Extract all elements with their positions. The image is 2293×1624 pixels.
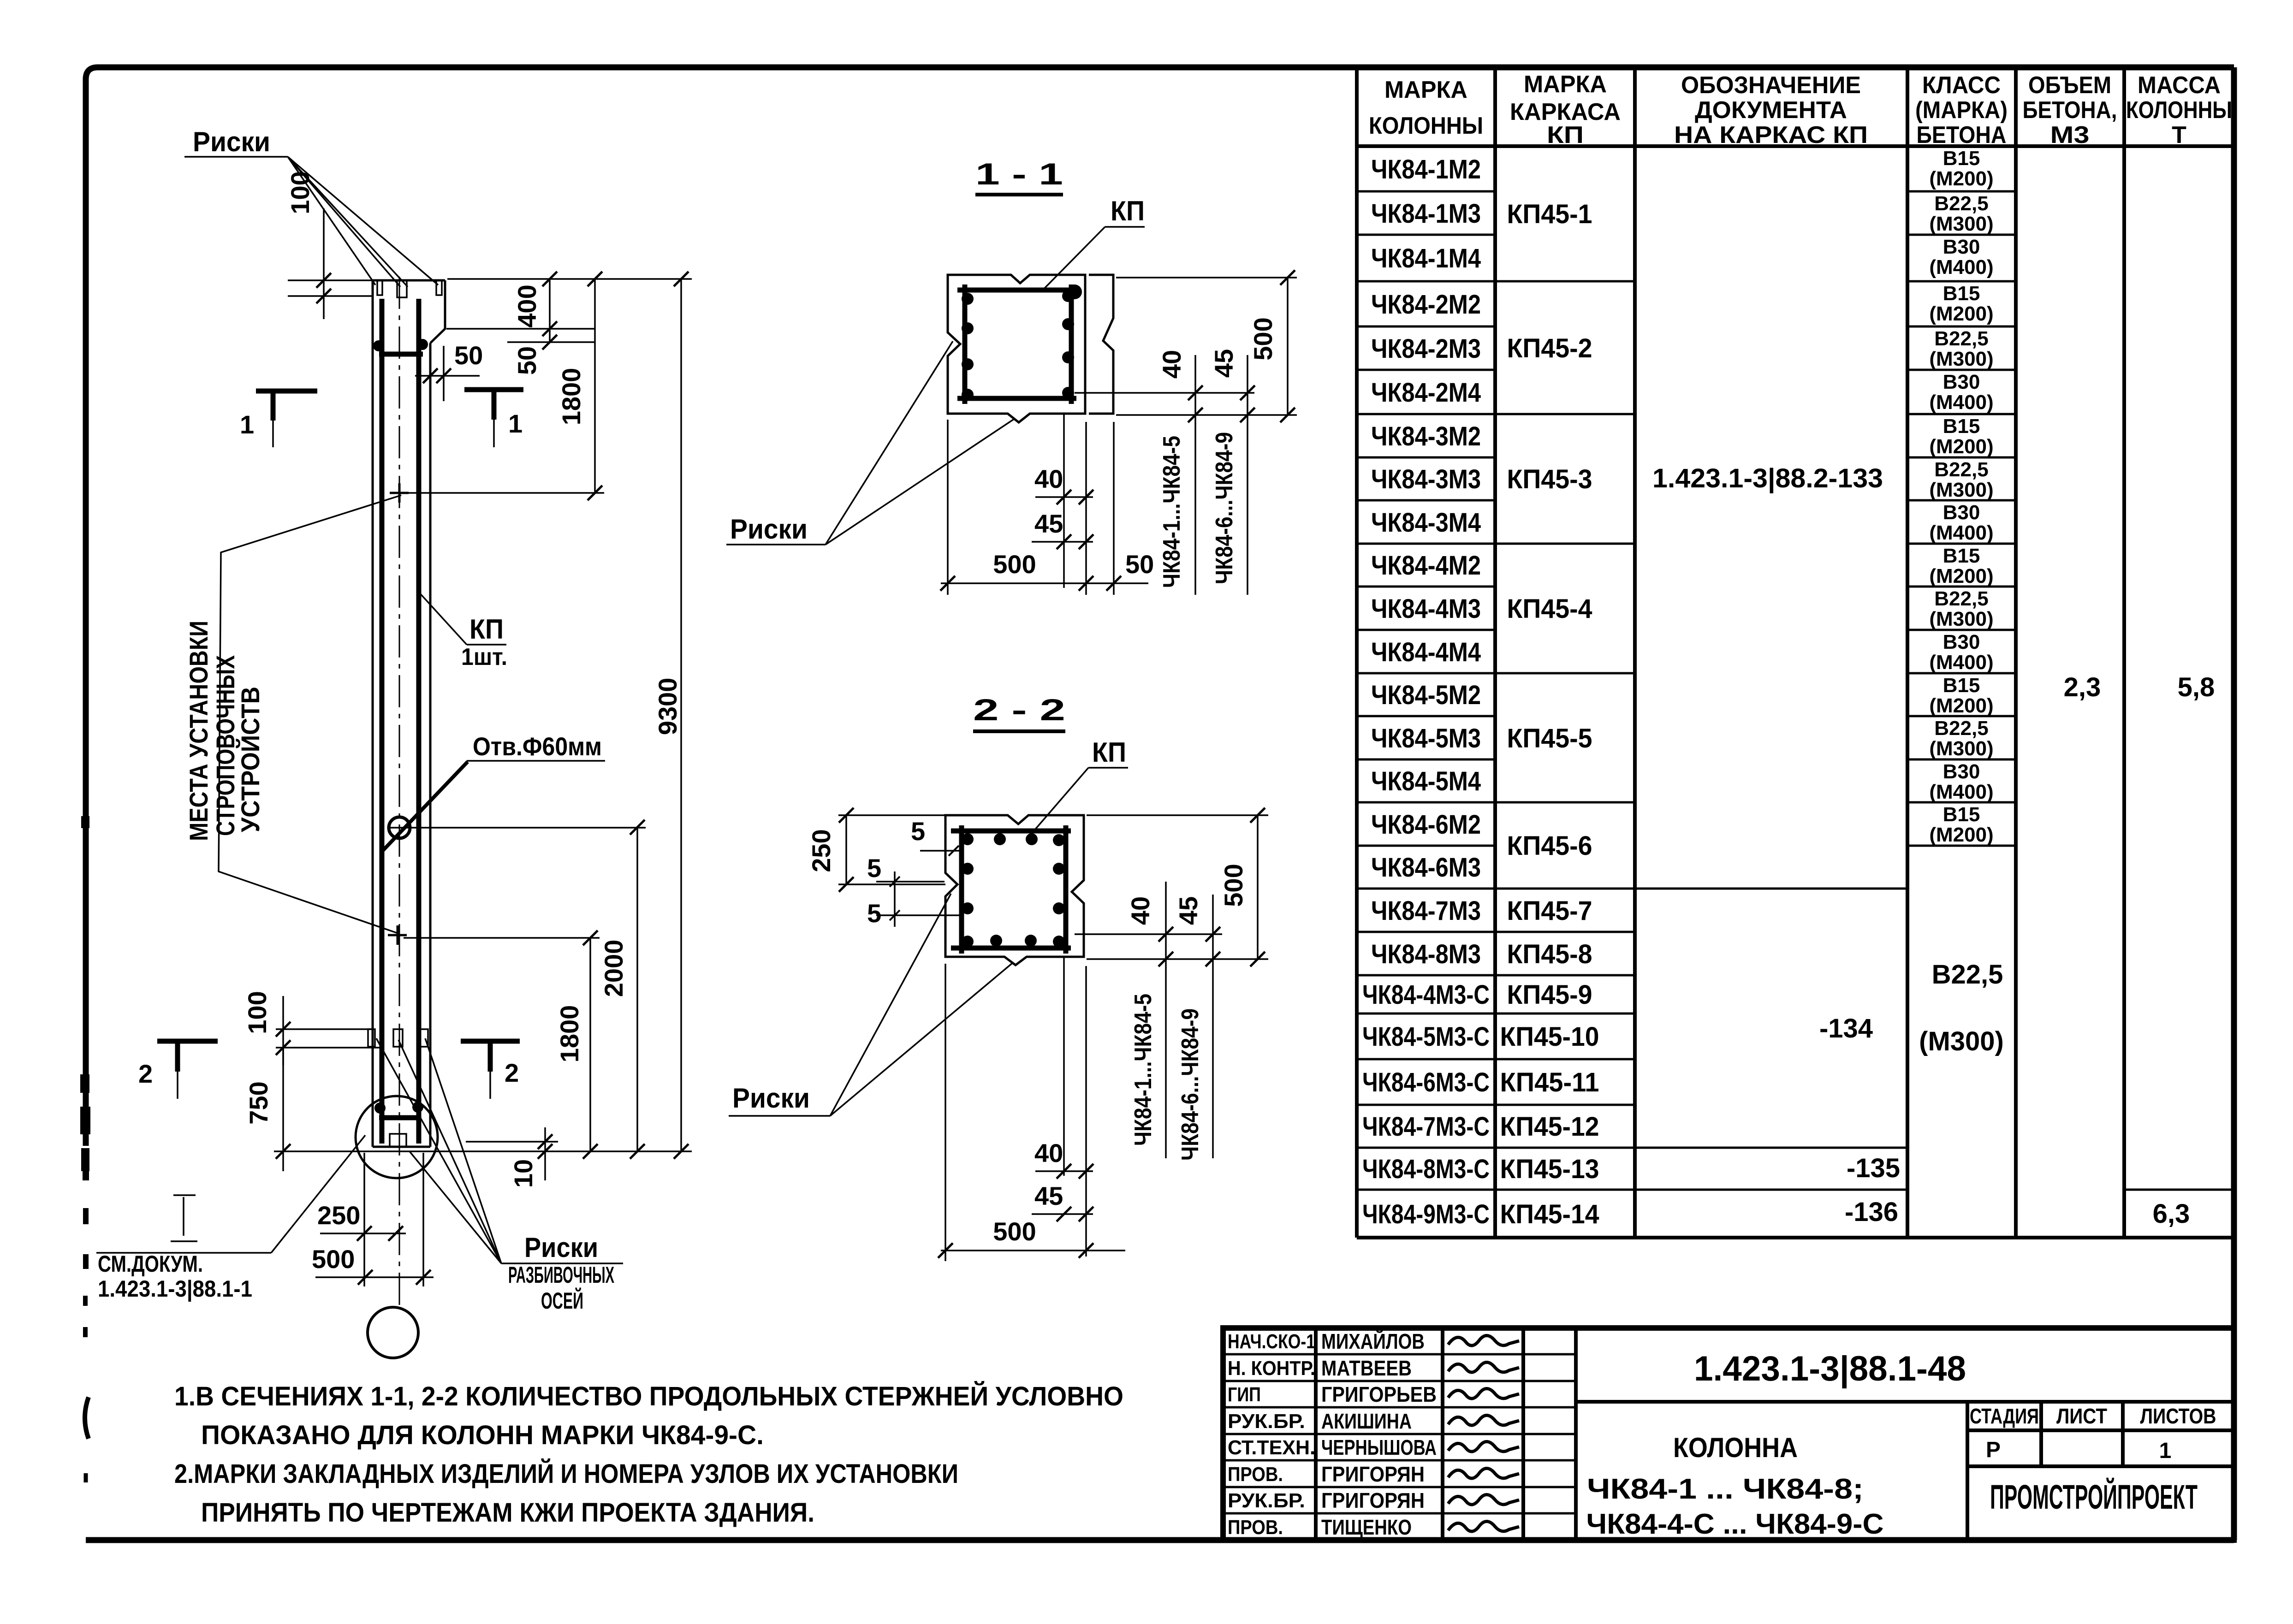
table header bottom line bbox=[1357, 144, 2234, 148]
svg-text:ЧК84-1...ЧК84-5: ЧК84-1...ЧК84-5 bbox=[1158, 436, 1185, 588]
left rebar line bbox=[380, 299, 385, 1144]
signature squiggles bbox=[1448, 1335, 1519, 1345]
svg-text:КП45-2: КП45-2 bbox=[1507, 333, 1592, 363]
bottom dims 40/45 of 1-1 bbox=[1063, 414, 1065, 588]
rebar dots bbox=[962, 293, 974, 305]
svg-text:ЧК84-4М2: ЧК84-4М2 bbox=[1371, 551, 1481, 581]
TABLE GRID bbox=[1357, 67, 2234, 1238]
table col1 row separator lines bbox=[1357, 190, 1495, 193]
sm dokum I-mark bbox=[171, 1195, 197, 1241]
strop leader bracket bbox=[219, 495, 401, 933]
svg-text:50: 50 bbox=[1125, 550, 1154, 579]
svg-text:ЧК84-1 ... ЧК84-8;: ЧК84-1 ... ЧК84-8; bbox=[1587, 1473, 1864, 1505]
svg-text:1.423.1-3|88.2-133: 1.423.1-3|88.2-133 bbox=[1652, 463, 1883, 493]
svg-text:В22,5: В22,5 bbox=[1932, 960, 2003, 990]
svg-text:ОБОЗНАЧЕНИЕ: ОБОЗНАЧЕНИЕ bbox=[1681, 72, 1861, 99]
svg-text:В30: В30 bbox=[1943, 631, 1980, 653]
dim 100 top: dimension line bbox=[323, 208, 325, 319]
column bottom edge bbox=[373, 1146, 430, 1148]
dim 400: line bbox=[549, 279, 551, 342]
bottom anchor dots bbox=[374, 1102, 386, 1114]
svg-text:МАРКА: МАРКА bbox=[1524, 71, 1607, 98]
svg-text:НАЧ.СКО-1: НАЧ.СКО-1 bbox=[1228, 1330, 1315, 1353]
svg-text:Р: Р bbox=[1986, 1438, 2001, 1462]
bottom centering lug bbox=[390, 1134, 406, 1147]
svg-text:В15: В15 bbox=[1943, 282, 1980, 305]
svg-text:2 - 2: 2 - 2 bbox=[973, 693, 1065, 727]
svg-text:45: 45 bbox=[1034, 509, 1063, 538]
svg-text:500: 500 bbox=[993, 1217, 1036, 1246]
section mark 1 left bbox=[256, 389, 317, 394]
svg-text:2.МАРКИ ЗАКЛАДНЫХ ИЗДЕЛИЙ И НО: 2.МАРКИ ЗАКЛАДНЫХ ИЗДЕЛИЙ И НОМЕРА УЗЛОВ… bbox=[174, 1459, 958, 1489]
svg-text:Н. КОНТР.: Н. КОНТР. bbox=[1228, 1357, 1315, 1380]
svg-text:ЛИСТОВ: ЛИСТОВ bbox=[2140, 1404, 2216, 1428]
doc number cell bottom line bbox=[1576, 1400, 2234, 1404]
svg-text:ГРИГОРЯН: ГРИГОРЯН bbox=[1321, 1462, 1425, 1486]
column top edge bbox=[373, 279, 445, 282]
svg-text:ЧК84-4М3-С: ЧК84-4М3-С bbox=[1362, 980, 1490, 1010]
svg-text:АКИШИНА: АКИШИНА bbox=[1321, 1409, 1412, 1433]
svg-text:В15: В15 bbox=[1943, 674, 1980, 697]
table bottom edge bbox=[1357, 1236, 2234, 1239]
svg-text:КП45-13: КП45-13 bbox=[1500, 1154, 1599, 1184]
dim 250 left 2-2 bbox=[838, 814, 945, 816]
svg-text:ЧК84-3М2: ЧК84-3М2 bbox=[1371, 421, 1481, 451]
svg-text:ЧК84-6М3-С: ЧК84-6М3-С bbox=[1362, 1067, 1490, 1097]
svg-text:В15: В15 bbox=[1943, 545, 1980, 567]
svg-text:1: 1 bbox=[508, 409, 523, 438]
svg-text:1800: 1800 bbox=[555, 1005, 584, 1063]
svg-text:КОЛОННА: КОЛОННА bbox=[1673, 1432, 1798, 1463]
dims 5 left 2-2 bbox=[920, 850, 962, 852]
svg-text:1 - 1: 1 - 1 bbox=[975, 157, 1063, 191]
detail circle at column foot bbox=[356, 1096, 438, 1178]
svg-text:Риски: Риски bbox=[524, 1232, 598, 1263]
top extension line to 9300 bbox=[447, 278, 692, 280]
svg-text:ЧЕРНЫШОВА: ЧЕРНЫШОВА bbox=[1321, 1435, 1437, 1459]
svg-text:(М400): (М400) bbox=[1929, 391, 1993, 414]
top left strand slot bbox=[377, 280, 382, 295]
svg-text:ЧК84-2М3: ЧК84-2М3 bbox=[1371, 334, 1481, 364]
svg-text:(М400): (М400) bbox=[1929, 522, 1993, 544]
svg-text:ЧК84-2М2: ЧК84-2М2 bbox=[1371, 290, 1481, 320]
svg-text:ПРОМСТРОЙПРОЕКТ: ПРОМСТРОЙПРОЕКТ bbox=[1990, 1477, 2198, 1516]
svg-text:КП: КП bbox=[1092, 737, 1126, 768]
svg-text:40: 40 bbox=[1157, 350, 1186, 379]
bottom center risk mark bbox=[393, 1029, 403, 1047]
svg-text:РАЗБИВОЧНЫХ: РАЗБИВОЧНЫХ bbox=[508, 1262, 614, 1288]
svg-text:5: 5 bbox=[867, 899, 881, 928]
svg-text:КП45-14: КП45-14 bbox=[1500, 1199, 1599, 1229]
frame left edge blobs bbox=[81, 816, 89, 828]
svg-text:ЧК84-5М3-С: ЧК84-5М3-С bbox=[1362, 1022, 1490, 1052]
svg-text:100: 100 bbox=[243, 991, 272, 1034]
svg-text:РУК.БР.: РУК.БР. bbox=[1228, 1489, 1305, 1512]
svg-text:ЧК84-1М4: ЧК84-1М4 bbox=[1371, 243, 1481, 273]
svg-text:КП: КП bbox=[1111, 196, 1145, 226]
svg-text:ОСЕЙ: ОСЕЙ bbox=[541, 1287, 583, 1314]
svg-text:500: 500 bbox=[1219, 864, 1248, 907]
svg-text:(М300): (М300) bbox=[1929, 348, 1993, 370]
svg-text:В15: В15 bbox=[1943, 415, 1980, 438]
svg-text:В22,5: В22,5 bbox=[1934, 458, 1988, 481]
dims 40/45 right 1-1 bbox=[1075, 392, 1254, 394]
svg-text:2000: 2000 bbox=[599, 940, 628, 997]
svg-text:ЧК84-4М3: ЧК84-4М3 bbox=[1371, 594, 1481, 624]
svg-text:ЧК84-5М2: ЧК84-5М2 bbox=[1371, 680, 1481, 710]
svg-text:БЕТОНА,: БЕТОНА, bbox=[2023, 97, 2117, 124]
dims 40/45 right 2-2 bbox=[1075, 933, 1222, 935]
svg-text:Риски: Риски bbox=[732, 1083, 810, 1114]
column right edge bbox=[429, 343, 432, 1147]
svg-text:ЧК84-3М3: ЧК84-3М3 bbox=[1371, 464, 1481, 494]
svg-text:В30: В30 bbox=[1943, 501, 1980, 524]
svg-text:(М200): (М200) bbox=[1929, 565, 1993, 587]
svg-text:(М200): (М200) bbox=[1929, 694, 1993, 717]
svg-text:6,3: 6,3 bbox=[2153, 1199, 2190, 1229]
extension at cross level bbox=[406, 492, 604, 494]
svg-text:В30: В30 bbox=[1943, 760, 1980, 783]
svg-text:ЧК84-8М3: ЧК84-8М3 bbox=[1371, 939, 1481, 969]
extension 10mm upper bbox=[466, 1141, 558, 1143]
top anchor dots bbox=[373, 340, 384, 351]
Riski top leader lines bbox=[288, 157, 375, 285]
bottom dim 500/50 of 1-1 bbox=[941, 582, 1148, 584]
svg-text:ОБЪЕМ: ОБЪЕМ bbox=[2028, 72, 2111, 99]
svg-text:ЧК84-6М3: ЧК84-6М3 bbox=[1371, 853, 1481, 883]
svg-text:1: 1 bbox=[240, 410, 254, 439]
svg-text:В15: В15 bbox=[1943, 147, 1980, 170]
svg-text:ЧК84-7М3: ЧК84-7М3 bbox=[1371, 896, 1481, 926]
svg-text:2: 2 bbox=[505, 1058, 519, 1087]
svg-text:1.423.1-3|88.1-48: 1.423.1-3|88.1-48 bbox=[1694, 1349, 1966, 1389]
section mark 1 right bbox=[464, 387, 523, 392]
svg-text:ЧК84-3М4: ЧК84-3М4 bbox=[1371, 508, 1481, 538]
svg-text:45: 45 bbox=[1209, 349, 1238, 378]
svg-text:500: 500 bbox=[312, 1245, 355, 1274]
dim 500 right 2-2 bbox=[1087, 814, 1268, 816]
elevation placeholder bbox=[96, 126, 692, 1358]
strop cross mark lower bbox=[388, 925, 407, 945]
title block signature row lines bbox=[1223, 1353, 1576, 1356]
bottom anchor plate bar bbox=[379, 1115, 419, 1120]
svg-text:ПОКАЗАНО ДЛЯ КОЛОНН МАРКИ ЧК84: ПОКАЗАНО ДЛЯ КОЛОНН МАРКИ ЧК84-9-С. bbox=[201, 1420, 764, 1450]
svg-text:Т: Т bbox=[2172, 122, 2186, 148]
svg-text:ЧК84-1М2: ЧК84-1М2 bbox=[1371, 154, 1481, 184]
top right strand slot bbox=[436, 280, 442, 295]
svg-text:45: 45 bbox=[1034, 1181, 1063, 1210]
svg-text:50: 50 bbox=[454, 341, 483, 370]
svg-text:50: 50 bbox=[512, 346, 541, 375]
frame top edge bbox=[86, 67, 2234, 1146]
svg-text:В22,5: В22,5 bbox=[1934, 717, 1988, 740]
rebar cage 2-2 bbox=[951, 825, 1071, 954]
svg-text:ПРОВ.: ПРОВ. bbox=[1228, 1516, 1283, 1539]
hole diagonal slash bbox=[381, 762, 468, 853]
section mark 2 right bbox=[461, 1039, 520, 1044]
svg-text:СМ.ДОКУМ.: СМ.ДОКУМ. bbox=[98, 1251, 203, 1277]
dim 9300: line bbox=[680, 279, 682, 1151]
section 1-1 concrete outline bbox=[948, 275, 1085, 422]
svg-text:-135: -135 bbox=[1847, 1153, 1900, 1183]
svg-text:КП45-8: КП45-8 bbox=[1507, 939, 1592, 969]
right rebar line bbox=[416, 299, 422, 1144]
dim 1800 lower: extension at cross level bbox=[404, 937, 600, 939]
svg-text:1.423.1-3|88.1-1: 1.423.1-3|88.1-1 bbox=[98, 1276, 252, 1302]
svg-text:-134: -134 bbox=[1819, 1014, 1873, 1043]
svg-text:10: 10 bbox=[509, 1159, 538, 1188]
svg-text:ЛИСТ: ЛИСТ bbox=[2056, 1404, 2107, 1428]
table column МАССА separator bbox=[2124, 1189, 2234, 1191]
rebar cage square bbox=[957, 284, 1078, 404]
svg-text:ГИП: ГИП bbox=[1228, 1383, 1261, 1406]
svg-text:(М300): (М300) bbox=[1929, 479, 1993, 501]
title block signature column lines bbox=[1314, 1328, 1318, 1540]
table vertical line col1 bbox=[1493, 67, 1497, 1238]
svg-text:500: 500 bbox=[993, 550, 1036, 579]
svg-text:ТИЩЕНКО: ТИЩЕНКО bbox=[1321, 1515, 1412, 1539]
svg-text:(М300): (М300) bbox=[1919, 1026, 2004, 1056]
svg-text:(М400): (М400) bbox=[1929, 651, 1993, 674]
leaders to risk marks bbox=[376, 1038, 501, 1263]
rebar dots 2-2 bbox=[962, 833, 974, 845]
top center lifting slot bbox=[397, 280, 407, 297]
svg-text:ЧК84-6М2: ЧК84-6М2 bbox=[1371, 810, 1481, 840]
svg-text:КП: КП bbox=[1547, 122, 1584, 148]
title block placeholder bbox=[1223, 1328, 2234, 1540]
bottom right risk mark bbox=[420, 1029, 428, 1047]
svg-text:1шт.: 1шт. bbox=[461, 644, 507, 670]
svg-text:ДОКУМЕНТА: ДОКУМЕНТА bbox=[1695, 97, 1847, 124]
svg-text:КП45-7: КП45-7 bbox=[1507, 896, 1592, 926]
svg-text:КП45-4: КП45-4 bbox=[1507, 594, 1592, 624]
svg-text:(М200): (М200) bbox=[1929, 167, 1993, 190]
svg-text:СТ.ТЕХН.: СТ.ТЕХН. bbox=[1228, 1436, 1315, 1459]
svg-text:МЕСТА УСТАНОВКИ: МЕСТА УСТАНОВКИ bbox=[184, 621, 213, 841]
svg-text:ЧК84-9М3-С: ЧК84-9М3-С bbox=[1362, 1199, 1490, 1229]
svg-text:750: 750 bbox=[244, 1081, 273, 1124]
svg-text:УСТРОЙСТВ: УСТРОЙСТВ bbox=[236, 687, 265, 832]
svg-text:ПРОВ.: ПРОВ. bbox=[1228, 1463, 1283, 1486]
hole Otv 60mm circle bbox=[389, 817, 410, 838]
svg-text:КОЛОННЫ: КОЛОННЫ bbox=[1369, 113, 1483, 139]
svg-text:45: 45 bbox=[1174, 896, 1203, 925]
svg-text:КП: КП bbox=[469, 614, 504, 645]
svg-text:250: 250 bbox=[317, 1201, 360, 1230]
svg-text:МАТВЕЕВ: МАТВЕЕВ bbox=[1321, 1356, 1412, 1380]
svg-text:ЧК84-6...ЧК84-9: ЧК84-6...ЧК84-9 bbox=[1177, 1008, 1204, 1161]
svg-text:Риски: Риски bbox=[730, 514, 808, 545]
svg-text:ЧК84-2М4: ЧК84-2М4 bbox=[1371, 378, 1481, 408]
svg-text:250: 250 bbox=[807, 829, 836, 872]
svg-text:М3: М3 bbox=[2050, 122, 2090, 148]
frame bottom edge bbox=[86, 1537, 2234, 1543]
svg-text:ГРИГОРЯН: ГРИГОРЯН bbox=[1321, 1488, 1425, 1512]
column left edge bbox=[372, 280, 374, 1147]
svg-text:5: 5 bbox=[867, 853, 881, 883]
corbel bottom extension bbox=[446, 328, 595, 330]
svg-text:2: 2 bbox=[138, 1059, 153, 1088]
svg-text:КП45-9: КП45-9 bbox=[1507, 980, 1592, 1010]
section mark 2 left bbox=[157, 1039, 218, 1044]
svg-text:ГРИГОРЬЕВ: ГРИГОРЬЕВ bbox=[1321, 1382, 1437, 1406]
svg-text:5,8: 5,8 bbox=[2178, 672, 2215, 702]
svg-text:(М400): (М400) bbox=[1929, 781, 1993, 803]
table vertical line col3 bbox=[1906, 67, 1909, 1238]
svg-text:В30: В30 bbox=[1943, 236, 1980, 258]
column centerline axis bbox=[399, 277, 400, 1308]
frame right edge bbox=[2231, 67, 2237, 1540]
svg-text:НА КАРКАС КП: НА КАРКАС КП bbox=[1674, 122, 1868, 148]
dim 2000: extension at hole level bbox=[389, 827, 646, 829]
section 2-2 concrete outline bbox=[945, 815, 1084, 965]
corbel right face bbox=[430, 280, 445, 343]
svg-text:40: 40 bbox=[1034, 1138, 1063, 1168]
svg-text:1800: 1800 bbox=[557, 368, 586, 426]
svg-text:ЧК84-6...ЧК84-9: ЧК84-6...ЧК84-9 bbox=[1211, 432, 1238, 584]
stadia list listov mini table bbox=[1967, 1428, 2234, 1432]
svg-text:-136: -136 bbox=[1845, 1197, 1898, 1227]
svg-text:БЕТОНА: БЕТОНА bbox=[1917, 122, 2007, 148]
table column ОБОЗНАЧЕНИЕ separators bbox=[1635, 888, 1907, 890]
svg-text:КП45-11: КП45-11 bbox=[1500, 1067, 1599, 1097]
bottom extension line long bbox=[274, 1150, 692, 1152]
dim 1800 upper: line bbox=[594, 279, 596, 493]
svg-text:1.В СЕЧЕНИЯХ 1-1, 2-2 КОЛИЧЕСТ: 1.В СЕЧЕНИЯХ 1-1, 2-2 КОЛИЧЕСТВО ПРОДОЛЬ… bbox=[174, 1381, 1123, 1411]
svg-text:(МАРКА): (МАРКА) bbox=[1915, 97, 2008, 124]
frame left edge broken fragments bbox=[83, 1155, 89, 1180]
section 1-1 extra 50 strip bbox=[1089, 275, 1113, 414]
svg-text:МИХАЙЛОВ: МИХАЙЛОВ bbox=[1321, 1329, 1425, 1353]
svg-text:2,3: 2,3 bbox=[2064, 672, 2101, 702]
table vertical line col2 bbox=[1633, 67, 1637, 1238]
svg-text:ЧК84-5М4: ЧК84-5М4 bbox=[1371, 766, 1481, 796]
svg-text:ЧК84-7М3-С: ЧК84-7М3-С bbox=[1362, 1112, 1490, 1142]
svg-text:1: 1 bbox=[2159, 1439, 2172, 1463]
column name cell divider bbox=[1966, 1402, 1969, 1540]
table vertical line col0 left edge bbox=[1355, 67, 1359, 1238]
svg-text:5: 5 bbox=[911, 817, 925, 846]
svg-text:КП45-6: КП45-6 bbox=[1507, 831, 1592, 861]
svg-text:ПРИНЯТЬ ПО ЧЕРТЕЖАМ КЖИ ПРОЕКТ: ПРИНЯТЬ ПО ЧЕРТЕЖАМ КЖИ ПРОЕКТА ЗДАНИЯ. bbox=[201, 1498, 814, 1528]
table vertical line col4 bbox=[2014, 67, 2018, 1238]
svg-text:ЧК84-8М3-С: ЧК84-8М3-С bbox=[1362, 1154, 1490, 1184]
svg-text:40: 40 bbox=[1034, 464, 1063, 493]
svg-text:ЧК84-1...ЧК84-5: ЧК84-1...ЧК84-5 bbox=[1130, 994, 1157, 1146]
bottom dims 2-2 bbox=[1063, 957, 1065, 1176]
svg-text:ЧК84-4М4: ЧК84-4М4 bbox=[1371, 637, 1481, 667]
dim 500 right 1-1 bbox=[1116, 277, 1297, 279]
table body placeholder bbox=[1357, 147, 2234, 1229]
svg-text:(М200): (М200) bbox=[1929, 435, 1993, 458]
svg-text:(М300): (М300) bbox=[1929, 213, 1993, 235]
svg-text:(М200): (М200) bbox=[1929, 824, 1993, 846]
dim 50 corbel: dimension line bbox=[415, 375, 480, 377]
verticals below column for 250/500 dims bbox=[363, 1153, 365, 1286]
svg-text:Отв.Ф60мм: Отв.Ф60мм bbox=[473, 732, 602, 761]
bottom left risk mark bbox=[368, 1029, 375, 1047]
table vertical line col5 bbox=[2122, 67, 2126, 1238]
svg-text:МАРКА: МАРКА bbox=[1384, 77, 1467, 103]
dim 50 corbel face: extension line down from corbel bbox=[443, 346, 445, 401]
dim 100 top: extension lines bbox=[288, 279, 372, 281]
svg-text:500: 500 bbox=[1248, 317, 1277, 360]
dim 50 (corbel slant): extension bbox=[507, 341, 595, 343]
svg-text:КП45-5: КП45-5 bbox=[1507, 723, 1592, 753]
svg-text:МАССА: МАССА bbox=[2138, 72, 2221, 99]
svg-text:КП45-3: КП45-3 bbox=[1507, 464, 1592, 494]
svg-text:ЧК84-4-С ... ЧК84-9-С: ЧК84-4-С ... ЧК84-9-С bbox=[1586, 1508, 1884, 1540]
bottom axis small circle bbox=[368, 1307, 418, 1358]
title block outer border bbox=[1223, 1328, 2234, 1540]
svg-text:(М300): (М300) bbox=[1929, 737, 1993, 760]
svg-text:СТАДИЯ: СТАДИЯ bbox=[1970, 1404, 2039, 1428]
svg-text:РУК.БР.: РУК.БР. bbox=[1228, 1410, 1305, 1433]
svg-text:(М200): (М200) bbox=[1929, 302, 1993, 325]
svg-text:КЛАСС: КЛАСС bbox=[1922, 72, 2001, 99]
svg-text:100: 100 bbox=[285, 171, 315, 214]
dim 10 line bbox=[544, 1127, 546, 1180]
svg-text:(М300): (М300) bbox=[1929, 608, 1993, 630]
table header texts bbox=[1369, 71, 2232, 148]
svg-text:(М400): (М400) bbox=[1929, 256, 1993, 279]
svg-text:40: 40 bbox=[1126, 896, 1155, 925]
dim 500 bbox=[315, 1276, 434, 1278]
svg-text:В22,5: В22,5 bbox=[1934, 327, 1988, 350]
dim 750: line bbox=[282, 1048, 284, 1171]
svg-text:В15: В15 bbox=[1943, 803, 1980, 826]
top anchor plate bar bbox=[379, 352, 423, 357]
dim 250 bbox=[320, 1233, 406, 1234]
section 1-1 placeholder bbox=[726, 157, 1297, 595]
dim 100 bottom: extensions bbox=[276, 1028, 372, 1030]
svg-text:Риски: Риски bbox=[193, 126, 270, 157]
strop cross mark upper bbox=[390, 483, 409, 503]
svg-text:КОЛОННЫ: КОЛОННЫ bbox=[2126, 97, 2232, 124]
svg-text:В22,5: В22,5 bbox=[1934, 192, 1988, 215]
svg-text:КП45-12: КП45-12 bbox=[1500, 1112, 1599, 1142]
svg-text:КП45-10: КП45-10 bbox=[1500, 1022, 1599, 1052]
svg-text:КП45-1: КП45-1 bbox=[1507, 199, 1592, 229]
notes placeholder bbox=[174, 1381, 1123, 1528]
svg-text:ЧК84-1М3: ЧК84-1М3 bbox=[1371, 199, 1481, 229]
svg-text:В30: В30 bbox=[1943, 371, 1980, 393]
svg-text:400: 400 bbox=[512, 284, 541, 327]
svg-text:9300: 9300 bbox=[653, 678, 682, 735]
svg-text:ЧК84-5М3: ЧК84-5М3 bbox=[1371, 723, 1481, 753]
svg-text:В22,5: В22,5 bbox=[1934, 587, 1988, 610]
